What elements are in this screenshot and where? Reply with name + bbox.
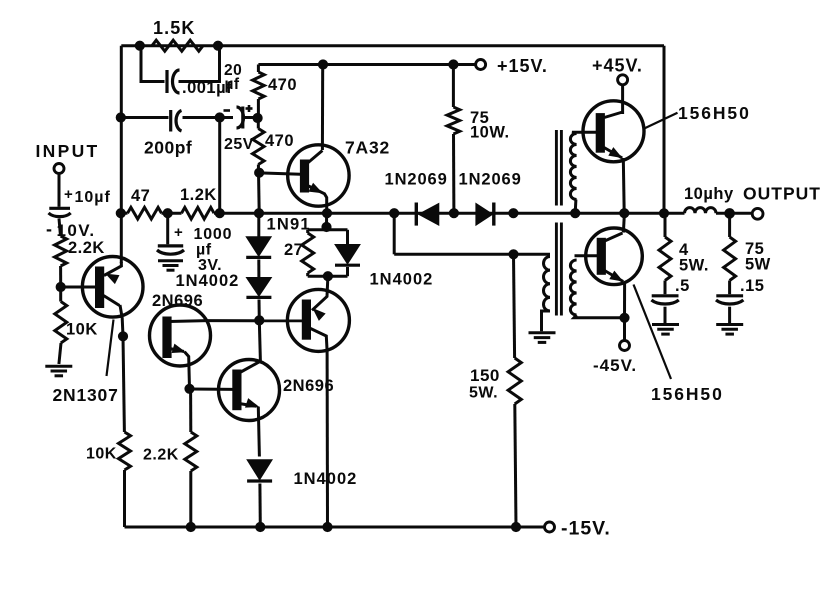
resistor R5 2.2K (55, 236, 105, 266)
wire right rail (663, 46, 666, 214)
node D (215, 113, 224, 122)
node G (254, 209, 263, 218)
wire D4 to rail (258, 484, 261, 528)
wire second rail (258, 63, 475, 66)
node H (318, 60, 327, 69)
text OUTPUT (743, 184, 821, 204)
svg-text:2N696: 2N696 (152, 292, 203, 310)
svg-text:10µhy: 10µhy (684, 185, 734, 203)
svg-text:2N1307: 2N1307 (53, 385, 119, 405)
node R (323, 272, 332, 281)
transistor Q4 2N696 (219, 360, 335, 421)
capacitor C7 .15 (716, 296, 743, 323)
resistor R12 150 5W (469, 358, 521, 404)
wire Q4 collector (259, 320, 260, 361)
transistor Q1 7A32 (288, 138, 390, 214)
wire -45V (623, 318, 626, 341)
svg-text:10K: 10K (86, 446, 117, 463)
node W (511, 522, 520, 531)
capacitor C3 20uf 25V (224, 62, 254, 153)
wire mid rail seg4 (716, 212, 753, 215)
svg-text:1000: 1000 (194, 226, 233, 243)
wire bottom rail (125, 526, 545, 529)
wire combo top (308, 228, 348, 231)
svg-text:7A32: 7A32 (345, 138, 390, 158)
wire left drop (123, 336, 124, 432)
wire Q4 emitter (258, 407, 259, 457)
svg-text:5W: 5W (745, 256, 771, 274)
svg-text:1N91: 1N91 (267, 216, 311, 234)
diode D6 1N2069 (459, 171, 522, 226)
svg-text:INPUT: INPUT (36, 141, 100, 161)
transistor Q5 2N696 (287, 276, 349, 351)
wire feedback loop (141, 46, 220, 82)
wire input drop (58, 174, 61, 207)
wire 150 to rail (515, 404, 516, 527)
svg-text:-15V.: -15V. (561, 518, 611, 540)
node AE (659, 209, 668, 218)
diode D5 1N2069 (385, 171, 448, 226)
svg-text:+45V.: +45V. (592, 56, 643, 76)
node AB (571, 209, 580, 218)
node E (253, 113, 262, 122)
svg-text:150: 150 (470, 366, 500, 385)
svg-text:156H50: 156H50 (678, 103, 751, 123)
node O (215, 209, 224, 218)
wire mid rail seg3 (214, 212, 685, 215)
svg-text:200pf: 200pf (144, 138, 192, 158)
svg-text:-: - (46, 219, 53, 239)
svg-text:47: 47 (131, 187, 150, 205)
svg-text:25V: 25V (224, 136, 254, 153)
svg-text:1N4002: 1N4002 (176, 272, 240, 290)
svg-text:µf: µf (225, 76, 240, 93)
text 156H50 lower (651, 384, 724, 404)
svg-text:.15: .15 (740, 277, 764, 295)
terminal OUTPUT (752, 208, 763, 219)
wire combo stem (325, 213, 328, 229)
node B (213, 41, 222, 50)
wire 10K to rail (123, 470, 126, 527)
text 1N4002 upper (176, 272, 240, 290)
wire +45V to collector (621, 85, 624, 114)
capacitor C4 10uf (46, 186, 111, 240)
leader 156H50 lower (634, 285, 672, 380)
wire 7A32 collector (321, 65, 324, 151)
resistor R2 470 (253, 65, 297, 119)
ground 1000uf (158, 261, 183, 270)
svg-text:-45V.: -45V. (593, 356, 637, 375)
wire 200pf junction drop (218, 118, 221, 214)
svg-text:1N2069: 1N2069 (459, 171, 522, 189)
terminal INPUT (36, 141, 100, 174)
wire bypass horiz (394, 253, 550, 256)
node C (116, 113, 125, 122)
wire 200pf to C3 (183, 116, 234, 119)
node S (185, 384, 194, 393)
ground output2 (716, 325, 743, 335)
svg-text:1N2069: 1N2069 (385, 171, 448, 189)
capacitor C5 1000uf (157, 213, 232, 274)
resistor R4 75 10W (447, 65, 510, 214)
transistor Q7 156H50 (586, 213, 643, 318)
wire combo bottom (308, 275, 348, 278)
terminal -15V (545, 518, 611, 540)
svg-text:OUTPUT: OUTPUT (743, 184, 821, 204)
wire Q4 base (190, 388, 233, 391)
svg-text:470: 470 (265, 132, 294, 150)
svg-text:10W.: 10W. (470, 124, 510, 142)
diode D4 1N4002 (247, 460, 357, 488)
svg-text:1.2K: 1.2K (180, 186, 217, 204)
resistor R13 4 5W (659, 213, 709, 295)
svg-text:µf: µf (196, 242, 212, 259)
transistor Q6 156H50 (583, 101, 644, 213)
terminal -45V (593, 341, 637, 376)
svg-text:1N4002: 1N4002 (294, 470, 358, 488)
resistor R10 10K (86, 432, 131, 470)
ground transformer (529, 333, 556, 343)
svg-text:2.2K: 2.2K (68, 239, 105, 257)
transistor Q3 2N696 (150, 292, 211, 389)
capacitor C2 200pf (144, 110, 192, 158)
node T (186, 522, 195, 531)
node Y (449, 209, 458, 218)
wire left rail (120, 46, 123, 263)
resistor R9 27 (284, 230, 314, 276)
transformer upper secondary (570, 132, 596, 213)
svg-text:10K: 10K (66, 321, 98, 339)
wire bypass down (393, 213, 396, 254)
svg-text:+15V.: +15V. (497, 56, 548, 76)
node X (390, 209, 399, 218)
terminal +45V (592, 56, 643, 85)
wire 150 drop (514, 254, 515, 358)
node Z (509, 209, 518, 218)
svg-text:156H50: 156H50 (651, 384, 724, 404)
capacitor C6 .5 (651, 296, 678, 323)
wire 7A32 base (259, 173, 300, 174)
wire 2.2K to node (59, 266, 62, 287)
svg-text:470: 470 (268, 76, 297, 94)
node N (163, 209, 172, 218)
node F (255, 168, 264, 177)
resistor R11 2.2K (143, 389, 197, 527)
svg-text:5W.: 5W. (679, 257, 709, 275)
node AF (725, 209, 735, 219)
diode D2 1N4002 (246, 278, 271, 298)
node M (116, 209, 125, 218)
transformer primary coil (542, 257, 551, 332)
wire chain top (257, 213, 260, 237)
svg-text:2.2K: 2.2K (143, 447, 179, 464)
transformer lower secondary (570, 256, 624, 318)
inductor L1 10uhy (684, 185, 734, 213)
wire mid rail seg2 (162, 212, 182, 215)
resistor R8 1.2K (180, 186, 217, 219)
node AC (620, 313, 629, 322)
leader 156H50 upper (644, 113, 677, 129)
wire cap to 2.2K (59, 219, 61, 237)
transformer core (556, 130, 561, 316)
wire Q5 collector drop (326, 350, 329, 527)
node A (135, 41, 144, 50)
wire chain mid (257, 260, 260, 278)
resistor R7 47 (128, 187, 162, 219)
svg-text:+: + (174, 224, 183, 241)
ground output1 (652, 325, 679, 335)
node I (449, 60, 458, 69)
diode D1 1N91 (246, 216, 311, 258)
diode D3 1N4002 (335, 230, 433, 289)
svg-text:.5: .5 (675, 277, 690, 295)
wire Q3 collector (207, 319, 303, 322)
node L (118, 332, 127, 341)
node U (256, 522, 265, 531)
wire Q2 base (61, 286, 96, 289)
node AA (509, 250, 518, 259)
capacitor C1 .001uf (167, 70, 232, 97)
wire C3 to 470 rail (244, 116, 258, 119)
svg-text:10µf: 10µf (75, 189, 111, 206)
node PP (255, 316, 264, 325)
node AD (620, 209, 629, 218)
svg-text:1.5K: 1.5K (153, 18, 195, 38)
resistor R14 75 5W (724, 213, 771, 295)
leader 2N1307 (107, 320, 114, 377)
wire 200pf row left (121, 116, 168, 119)
terminal +15V (476, 56, 548, 76)
resistor R1 1.5K (152, 18, 203, 51)
wire chain bot (258, 300, 261, 321)
wire top rail (121, 44, 664, 47)
wire mid rail seg1 (121, 212, 127, 215)
transistor Q2 2N1307 (53, 257, 144, 406)
svg-text:1N4002: 1N4002 (370, 271, 434, 289)
svg-text:5W.: 5W. (469, 385, 498, 402)
resistor R3 470 (253, 118, 295, 213)
node V (323, 522, 332, 531)
svg-text:27: 27 (284, 241, 303, 259)
text 10K upper (66, 321, 98, 339)
svg-text:+: + (64, 186, 73, 203)
ground input (45, 366, 72, 376)
node K (56, 282, 65, 291)
text 156H50 upper (678, 103, 751, 123)
node J (322, 209, 331, 218)
node Q (322, 222, 331, 231)
resistor R6 10K (55, 287, 67, 364)
